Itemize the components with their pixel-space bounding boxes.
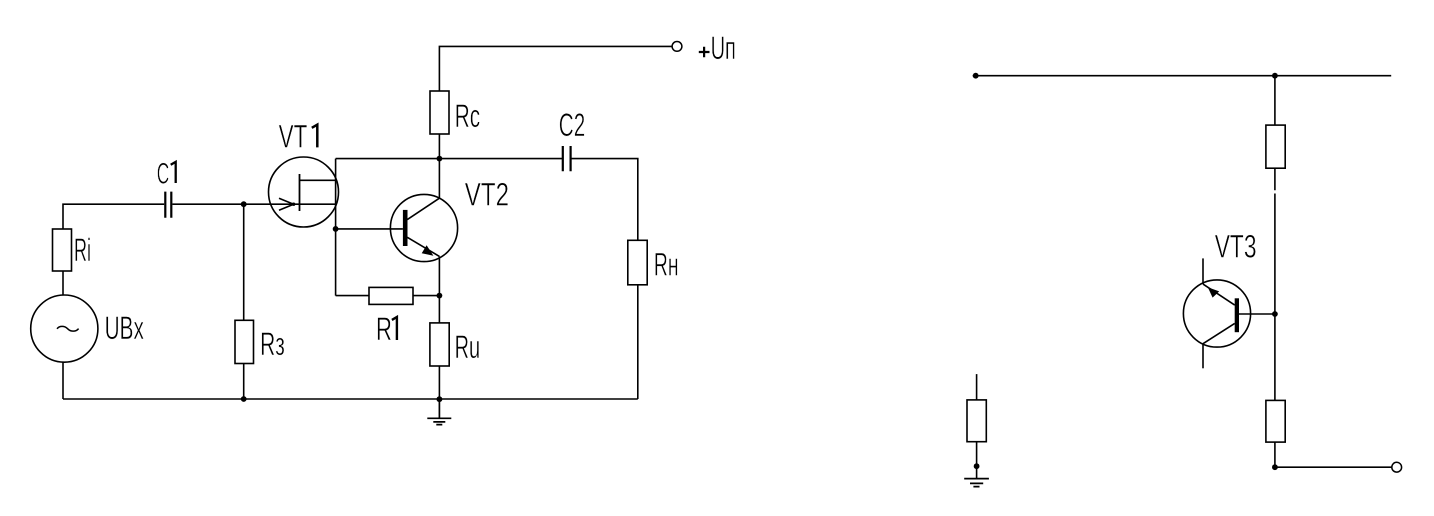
wire Ru to rail — [438, 366, 440, 399]
wire VT2 emitter down — [438, 256, 440, 295]
source G1 tilde — [57, 326, 79, 331]
wire upper resistor to lower resistor — [1274, 168, 1276, 400]
junction dot rail at divider — [1272, 73, 1278, 79]
svg-text:C2: C2 — [559, 107, 585, 143]
svg-text:VT: VT — [279, 118, 308, 154]
junction dot Rc bottom — [437, 156, 443, 162]
junction dot R3-rail — [241, 396, 247, 402]
svg-text:R: R — [376, 311, 392, 347]
wire Rc bottom — [438, 134, 440, 159]
resistor Ru — [430, 323, 449, 366]
ground — [427, 399, 451, 424]
wire Rc top to +Un corner — [439, 46, 671, 91]
wire VT2 base — [336, 228, 403, 230]
wire Ri top to corner to C1 — [63, 204, 164, 229]
wire node A down to R3 — [243, 204, 245, 320]
label +Un — [699, 47, 710, 58]
wire R3 to bottom rail — [243, 364, 245, 400]
junction dot VT3 base node — [1272, 311, 1278, 317]
svg-text:Rc: Rc — [455, 98, 480, 134]
wire VT3 emitter lead — [1202, 258, 1204, 284]
wire Rn to bottom rail — [637, 285, 639, 399]
wire VT1 drain/source vertical — [335, 159, 337, 296]
svg-text:VT2: VT2 — [465, 177, 509, 213]
svg-text:UBx: UBx — [105, 310, 144, 346]
svg-text:Uп: Uп — [711, 30, 736, 66]
wire lower resistor to output — [1274, 442, 1276, 467]
junction dot lower-left — [974, 463, 980, 469]
wire top node to C2 — [336, 158, 563, 160]
wire rail to upper resistor — [1274, 76, 1276, 125]
wire output — [1275, 466, 1392, 468]
wire source bottom to rail — [62, 362, 64, 399]
wire lower-left resistor to ground — [976, 442, 978, 479]
svg-text:Ri: Ri — [74, 232, 91, 268]
capacitor C1 — [165, 192, 171, 218]
wire VT3 base — [1239, 313, 1275, 315]
junction dot output node — [1272, 464, 1278, 470]
transistor VT3 (BJT rotated) — [1183, 280, 1250, 347]
junction dot emitter node — [437, 293, 443, 299]
wire corner to R1 — [336, 295, 369, 297]
junction dot VT1-VT2 base — [333, 226, 339, 232]
terminal output open circle — [1392, 462, 1402, 472]
svg-text:Ru: Ru — [455, 329, 481, 365]
node A junction dot — [241, 201, 247, 207]
resistor Rc — [430, 91, 449, 134]
wire source top to Ri — [62, 271, 64, 295]
wire VT2 collector up — [438, 159, 440, 199]
wire R1 to emitter node — [413, 295, 439, 297]
resistor Rn — [628, 240, 647, 284]
transistor VT2 (NPN BJT) — [390, 194, 457, 261]
resistor upper right — [1266, 125, 1285, 168]
svg-text:VT3: VT3 — [1215, 229, 1257, 265]
resistor lower right — [1266, 400, 1285, 442]
junction dot ground-rail — [437, 396, 443, 402]
resistor R1 — [369, 287, 413, 304]
wire C1 to VT1 gate (node A) — [172, 203, 335, 205]
svg-text:Rн: Rн — [654, 247, 679, 283]
svg-text:C: C — [157, 157, 170, 190]
terminal +Un open circle — [672, 42, 682, 52]
wire bottom rail — [63, 398, 638, 400]
wire VT3 collector lead — [1202, 344, 1204, 369]
junction dot rail left — [973, 73, 979, 79]
source G1 (AC source circle) — [31, 295, 98, 362]
wire stub above lower-left resistor — [976, 374, 978, 400]
svg-text:Rз: Rз — [260, 326, 285, 362]
wire right top rail — [973, 75, 1391, 77]
ground right fragment — [964, 479, 989, 487]
resistor lower-left — [967, 400, 986, 442]
resistor R3 — [235, 320, 254, 363]
wire node to Ru — [438, 296, 440, 323]
transistor VT1 (JFET) — [269, 157, 339, 227]
resistor Ri — [53, 229, 72, 271]
capacitor C2 — [563, 146, 571, 171]
wire C2 to Rn corner — [571, 159, 638, 241]
